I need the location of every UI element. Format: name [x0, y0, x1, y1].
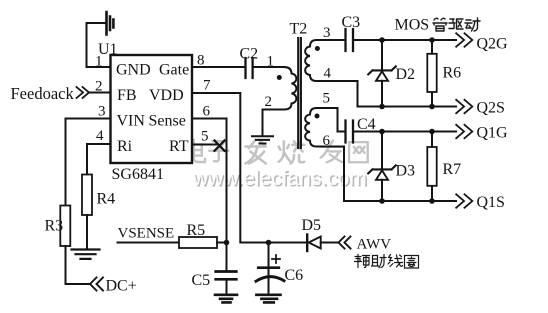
svg-text:VDD: VDD: [149, 87, 184, 104]
ground (below C5): [215, 295, 237, 303]
wire pin5 down to C4: [338, 108, 345, 132]
svg-text:RT: RT: [169, 138, 189, 155]
svg-text:R7: R7: [443, 161, 462, 178]
ground (below C6): [256, 295, 280, 303]
svg-text:1: 1: [267, 54, 275, 70]
transformer T2 secondary bottom (pins 5-6): [305, 108, 344, 201]
svg-text:Q2S: Q2S: [477, 100, 505, 117]
svg-text:GND: GND: [116, 62, 151, 79]
wire Q1S rail: [344, 200, 456, 202]
svg-text:4: 4: [324, 66, 332, 82]
node D3 bottom junction: [379, 198, 385, 204]
wire Q2G rail: [354, 39, 456, 41]
connector AWV <<: [339, 237, 351, 249]
svg-text:3: 3: [323, 25, 331, 41]
node D2 top junction: [379, 37, 385, 43]
capacitor C4: [346, 121, 354, 143]
svg-text:Q2G: Q2G: [477, 36, 509, 53]
watermark row: gray embossed chinese characters: [186, 140, 369, 165]
wire R4 to ground: [86, 215, 88, 249]
ground (T2 pin2): [252, 136, 273, 143]
resistor R4: [82, 175, 92, 216]
svg-text:8: 8: [197, 53, 205, 69]
wire pin6 Sense down to C5: [192, 119, 227, 272]
main circuit: [60, 12, 472, 302]
wire pin7 VDD down to C6 node: [192, 93, 269, 243]
svg-text:Q1S: Q1S: [477, 194, 505, 211]
svg-text:R3: R3: [45, 218, 64, 235]
node dot secondary top: [315, 46, 320, 51]
svg-text:MOS: MOS: [395, 17, 430, 34]
svg-text:T2: T2: [290, 21, 308, 38]
wire R5 to node: [217, 242, 227, 244]
wire C2 to T2 pin1: [254, 66, 284, 68]
node R7 bottom junction: [429, 198, 435, 204]
ground (top-left, rotated): [107, 12, 114, 35]
transformer T2 secondary top (pins 3-4): [305, 40, 357, 107]
svg-text:5: 5: [323, 91, 331, 107]
diode D5: [306, 235, 308, 252]
ground (below R4): [72, 250, 100, 259]
svg-text:Feedoack: Feedoack: [11, 84, 75, 103]
node Sense/R5 junction: [224, 240, 230, 246]
node R6 bottom junction: [429, 104, 435, 110]
svg-text:Sense: Sense: [149, 113, 186, 130]
label chinese: fu zhu xian quan (auxiliary winding): [355, 255, 419, 269]
wire VSENSE to R5: [118, 242, 180, 244]
svg-text:R6: R6: [443, 65, 462, 82]
svg-text:R4: R4: [97, 191, 116, 208]
svg-text:D2: D2: [396, 66, 416, 83]
zener diode D3: [381, 132, 383, 169]
svg-text:2: 2: [95, 79, 103, 95]
op-amp U1 SG6841 box: [111, 55, 193, 163]
svg-text:R5: R5: [187, 222, 206, 239]
svg-text:FB: FB: [117, 87, 137, 104]
svg-text:C3: C3: [342, 14, 361, 31]
no-connect X on pin5: [215, 141, 225, 151]
svg-text:C4: C4: [357, 116, 376, 133]
svg-text:DC+: DC+: [106, 278, 137, 295]
svg-text:D3: D3: [396, 163, 416, 180]
wire pin4 to R4: [87, 144, 111, 175]
wire R3 to DC+: [66, 246, 91, 284]
node dot primary: [277, 75, 282, 80]
resistor R5: [179, 237, 217, 248]
wire pin3 VIN down to R3: [66, 119, 111, 206]
svg-text:7: 7: [203, 78, 211, 94]
capacitor C5: [216, 272, 237, 280]
wire pin8 Gate to C2: [192, 66, 244, 68]
svg-text:Ri: Ri: [117, 138, 133, 155]
capacitor C2: [246, 58, 253, 78]
resistor R6: [431, 40, 433, 107]
connector Q1G arrow: [456, 124, 473, 139]
node dot secondary bottom: [315, 114, 320, 119]
node D2 bottom junction: [379, 104, 385, 110]
connector Q2G arrow: [456, 33, 473, 48]
svg-text:1: 1: [95, 54, 103, 70]
wire pin5 RT stub: [192, 144, 218, 146]
connector DC+ <<: [90, 278, 103, 291]
svg-text:2: 2: [265, 94, 273, 110]
transformer T2 primary winding: [263, 67, 297, 135]
zener diode D2: [381, 40, 383, 69]
transformer T2 core: [298, 38, 301, 148]
node R7 top junction: [429, 129, 435, 135]
svg-text:AWV: AWV: [357, 237, 392, 253]
svg-text:Q1G: Q1G: [477, 125, 509, 142]
svg-text:4: 4: [96, 128, 104, 144]
svg-text:VIN: VIN: [117, 113, 146, 130]
connector Feedoack >>: [77, 87, 90, 98]
svg-text:6: 6: [203, 104, 211, 120]
svg-text:C5: C5: [192, 272, 211, 289]
svg-text:D5: D5: [302, 217, 322, 234]
svg-text:3: 3: [98, 104, 106, 120]
node D3 top junction: [379, 129, 385, 135]
wire pin1 to ground: [87, 23, 111, 67]
wire node to D5: [269, 242, 306, 244]
capacitor C3: [346, 29, 354, 51]
svg-text:Gate: Gate: [159, 62, 189, 79]
resistor R3: [60, 206, 70, 247]
svg-text:www.elecfans.com: www.elecfans.com: [192, 167, 367, 190]
node R6 top junction: [429, 37, 435, 43]
wire Q2S rail: [358, 106, 457, 108]
connector Q1S arrow: [456, 194, 473, 209]
svg-text:SG6841: SG6841: [112, 166, 164, 183]
wire feedback to pin2: [89, 92, 111, 94]
connector Q2S arrow: [456, 99, 473, 114]
resistor R7: [431, 132, 433, 202]
svg-text:C2: C2: [240, 46, 259, 63]
svg-text:6: 6: [323, 133, 331, 149]
svg-text:C6: C6: [285, 267, 304, 284]
label chinese: guan qu dong: [433, 18, 480, 31]
node VDD/C6 junction: [266, 240, 272, 246]
svg-text:5: 5: [201, 129, 209, 145]
wire Q1G rail: [354, 131, 456, 133]
capacitor C6 (polarized): [268, 243, 270, 268]
svg-text:VSENSE: VSENSE: [118, 226, 175, 242]
